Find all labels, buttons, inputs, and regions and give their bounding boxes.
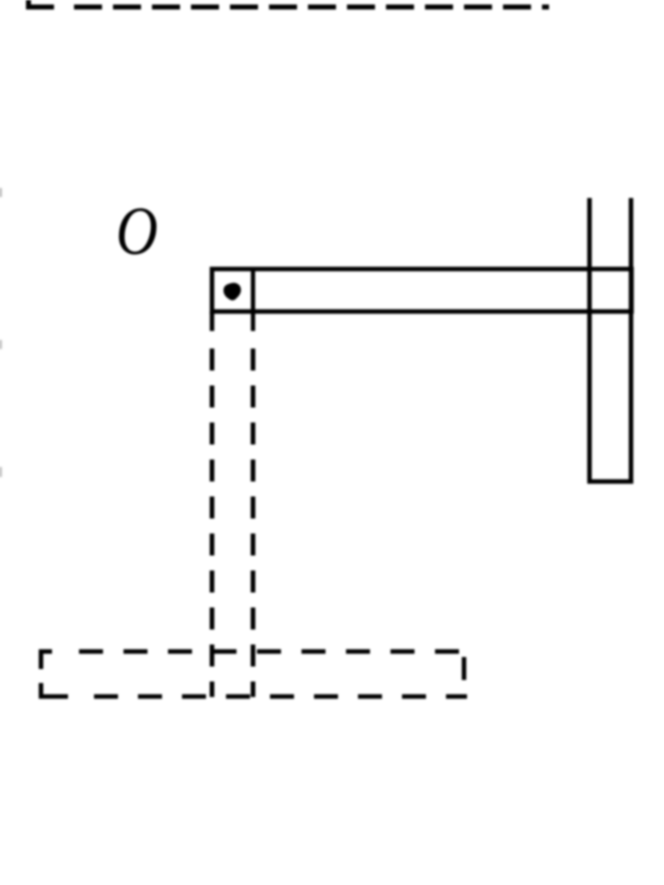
svg-text:O: O [116, 192, 158, 269]
